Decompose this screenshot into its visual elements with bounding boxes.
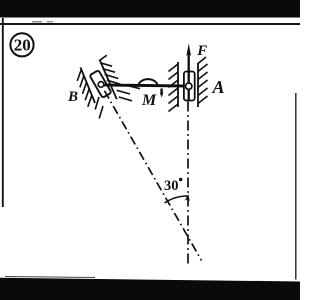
svg-text:A: A xyxy=(212,77,225,97)
svg-text:B: B xyxy=(67,89,78,105)
svg-text:20: 20 xyxy=(14,36,31,55)
svg-text:30: 30 xyxy=(164,178,179,194)
svg-text:M: M xyxy=(141,92,157,109)
svg-text:F: F xyxy=(196,43,207,59)
